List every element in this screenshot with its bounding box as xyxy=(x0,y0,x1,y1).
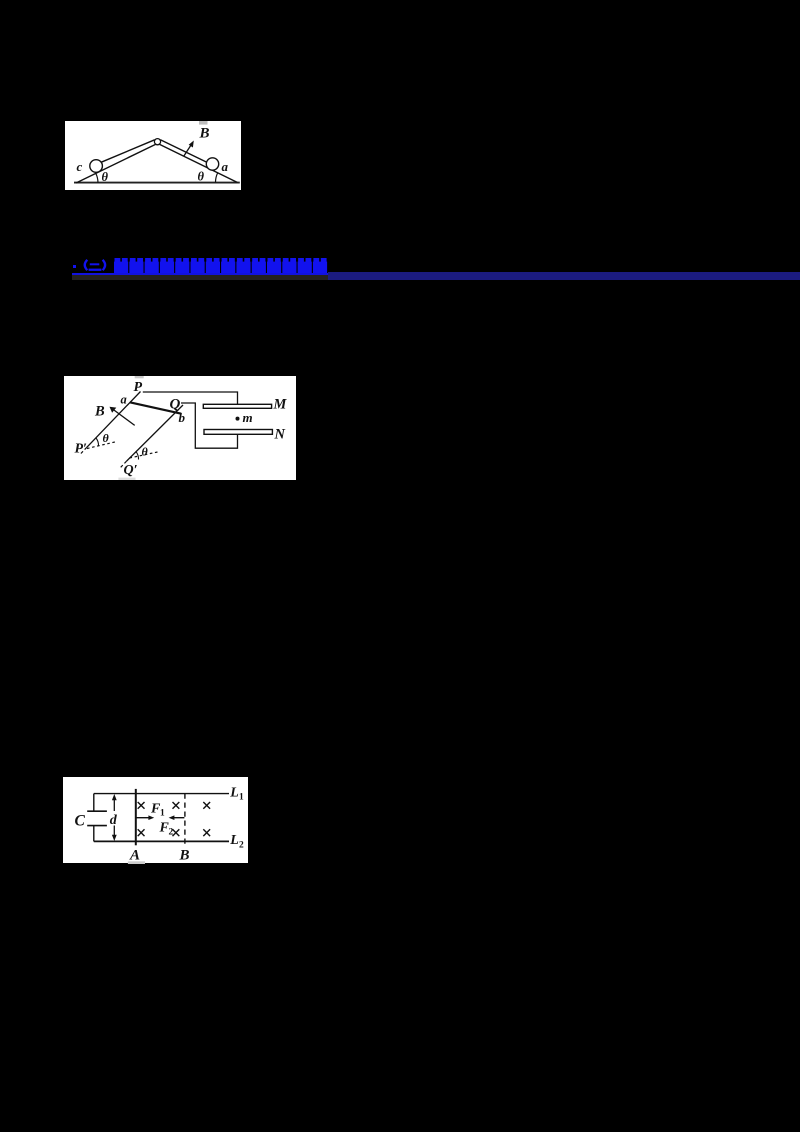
svg-text:a: a xyxy=(222,159,229,174)
svg-text:B: B xyxy=(199,126,210,142)
svg-text:P: P xyxy=(134,380,143,395)
svg-text:θ: θ xyxy=(102,170,109,184)
svg-text:d: d xyxy=(109,812,117,827)
svg-text:1: 1 xyxy=(160,808,165,818)
svg-text:1: 1 xyxy=(239,792,244,802)
svg-text:P′: P′ xyxy=(75,442,88,457)
svg-text:A: A xyxy=(129,847,140,863)
svg-text:Q′: Q′ xyxy=(124,463,138,478)
svg-text:B: B xyxy=(94,404,105,420)
svg-text:B: B xyxy=(178,847,189,863)
svg-text:θ: θ xyxy=(142,445,149,459)
svg-text:M: M xyxy=(273,397,288,413)
svg-text:C: C xyxy=(74,812,85,829)
svg-text:2: 2 xyxy=(168,827,173,837)
svg-text:θ: θ xyxy=(198,170,205,184)
svg-text:L: L xyxy=(229,833,239,848)
svg-text:c: c xyxy=(77,159,83,174)
svg-text:θ: θ xyxy=(103,431,110,445)
svg-text:a: a xyxy=(121,393,127,407)
svg-text:m: m xyxy=(243,410,253,425)
svg-text:N: N xyxy=(274,427,286,443)
svg-text:b: b xyxy=(179,410,186,425)
svg-text:2: 2 xyxy=(239,840,244,850)
svg-text:L: L xyxy=(229,785,239,800)
